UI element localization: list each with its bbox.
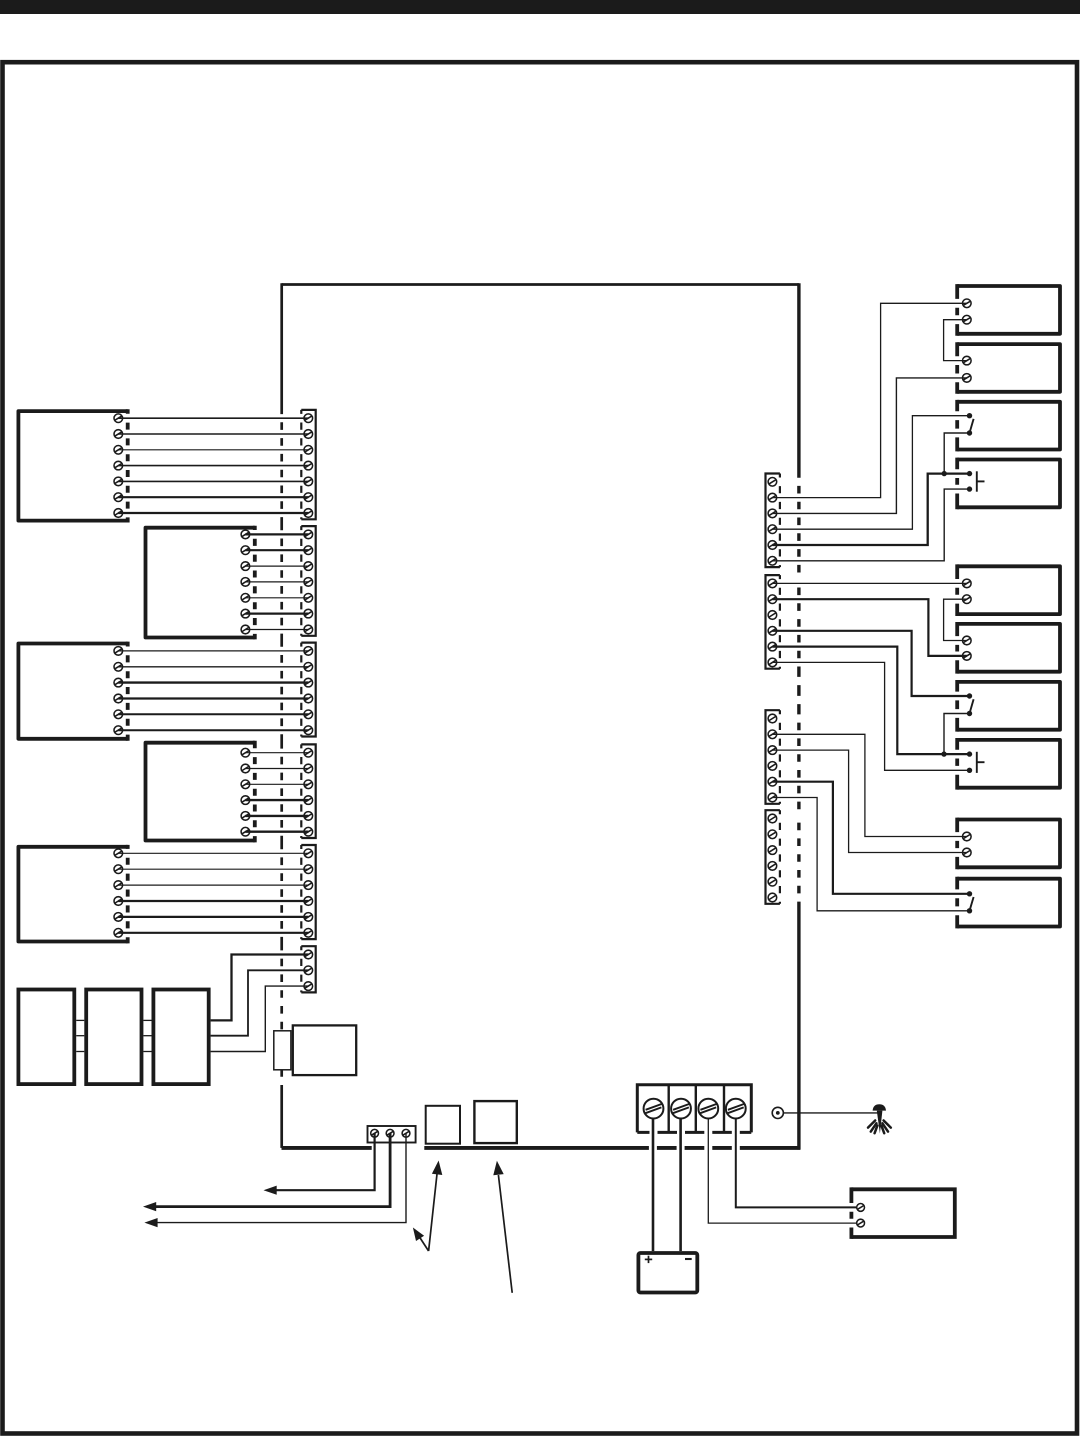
wire TSA-5 to R4 [772,474,969,545]
wire TSC-5 to R10 [772,782,969,894]
wire to TS5 pin 5 [118,916,308,918]
junction node B [941,751,946,756]
wire to TS3 pin 2 [118,666,308,668]
jumper R1 to R2 [944,320,967,361]
wire to TS4 pin 3 [245,783,308,785]
wire T4-3 to box R11 [708,1118,857,1223]
zone device box 5 [18,845,127,944]
switch box R3 [957,400,1060,452]
pushbutton box R4 [957,458,1060,510]
wire ground lug to earth [784,1112,878,1114]
wire to TS3 pin 5 [118,713,308,715]
battery BT1 [638,1253,697,1293]
wire to TS3 pin 3 [118,681,308,683]
keypad box 2 [146,526,255,640]
terminal strip TS4 [301,744,315,838]
wire TSC-6 to R10 [772,798,969,911]
wire to TS1 pin 5 [118,480,308,482]
sensor box R5 [957,564,1060,616]
wire TSB-5 to R8 [772,647,969,755]
wire to TS5 pin 3 [118,884,308,886]
wire to TS4 pin 4 [245,799,308,801]
terminal strip TSA [766,474,780,568]
wire T3-2 arrow lead [143,1133,390,1211]
wire TSA-3 to R2 [772,378,966,514]
terminal strip TS6 [301,946,315,992]
wire TSB-1 to R5 [772,582,966,584]
module link wire [76,1035,151,1037]
switch box R10 [957,877,1060,929]
wire to TS5 pin 2 [118,868,308,870]
power terminal block T4 [637,1085,751,1133]
callout arrow to U1 [413,1161,442,1252]
output device box R11 [851,1187,954,1239]
wire TSA-6 to R4 [772,489,969,561]
wire TSC-3 to R9 [772,750,966,852]
jumper R5 to R6 [944,599,967,640]
wire to TS3 pin 4 [118,697,308,699]
switch box R7 [957,680,1060,732]
wire T3-1 arrow lead [264,1133,375,1195]
wire to TS4 pin 5 [245,815,308,817]
wire to TS2 pin 1 [245,533,308,535]
jumper R7 to R8 wire [944,714,970,755]
wire module C to TS6 pin 3 [211,986,309,1051]
wire TSA-2 to R1 [772,303,966,497]
wire T4-1 to battery + [652,1118,655,1251]
wire to TS1 pin 4 [118,465,308,467]
wire to TS5 pin 4 [118,900,308,902]
wire TSC-2 to R9 [772,734,966,836]
siren module box B [86,990,141,1085]
terminal strip TS5 [301,845,315,939]
module link wire [76,1019,151,1021]
sensor box R6 [957,622,1060,674]
control board outline [282,283,801,1149]
wire to TS4 pin 6 [245,831,308,833]
wire to TS2 pin 7 [245,629,308,631]
wire to TS1 pin 6 [118,496,308,498]
sensor box R2 [957,342,1060,394]
wire to TS1 pin 1 [118,417,308,419]
wire to TS2 pin 3 [245,565,308,567]
wire TSB-2 to R6 [772,599,966,656]
terminal strip TSB [766,575,780,669]
ground lug [772,1107,783,1118]
module link wire [76,1051,151,1053]
jumper R3 to R4 wire [944,433,969,474]
speaker LS1 [274,1025,356,1075]
terminal strip TS3 [301,643,315,737]
siren module box A [18,990,74,1085]
wire module C to TS6 pin 2 [211,970,309,1035]
wire to TS5 pin 1 [118,852,308,854]
wire to TS1 pin 3 [118,449,308,451]
wire T4-2 to battery - [679,1118,682,1251]
component square U1 [426,1106,460,1144]
wire to TS1 pin 2 [118,433,308,435]
junction node A [942,471,947,476]
pushbutton box R8 [957,738,1060,790]
wire to TS2 pin 5 [245,597,308,599]
wire T3-3 arrow lead [144,1133,406,1227]
siren module box C [153,990,208,1085]
wire TSB-4 to R7 [772,631,969,696]
wire to TS5 pin 6 [118,932,308,934]
sensor box R9 [957,818,1060,870]
wire module C to TS6 pin 1 [211,955,309,1021]
callout arrow to U2 [493,1161,512,1293]
wire to TS1 pin 7 [118,512,308,514]
wire to TS2 pin 6 [245,612,308,614]
zone device box 3 [18,642,127,741]
keypad box 1 [18,409,127,522]
wire to TS3 pin 6 [118,729,308,731]
wire to TS2 pin 4 [245,581,308,583]
terminal strip TS1 [301,410,315,519]
earth ground symbol [868,1104,891,1133]
zone device box 4 [146,741,255,843]
wire TSB-6 to R8 [772,662,969,770]
terminal strip TSD [766,810,780,904]
terminal strip TSC [766,710,780,804]
wire to TS4 pin 2 [245,768,308,770]
wire to TS4 pin 1 [245,752,308,754]
terminal strip TS2 [301,526,315,636]
sensor box R1 [957,284,1060,336]
wire TSA-4 to R3 [772,416,969,530]
component square U2 [474,1101,516,1143]
wire T4-4 to box R11 [736,1118,857,1207]
terminal block T3 [368,1126,416,1143]
wire to TS2 pin 2 [245,549,308,551]
wire to TS3 pin 1 [118,650,308,652]
